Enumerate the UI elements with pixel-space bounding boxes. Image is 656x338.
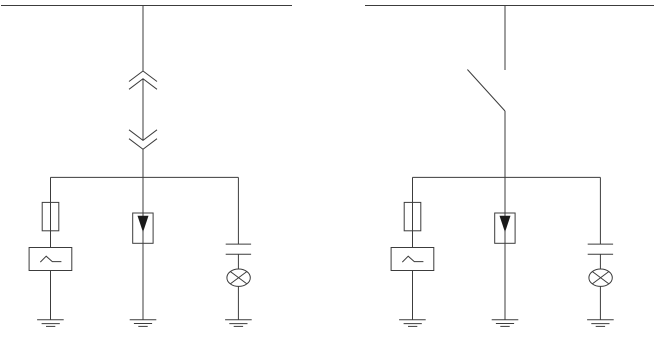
drawout contact chevron (lower pair, left bay breaker truck) (129, 130, 157, 150)
ground (right bay, right branch) (587, 320, 614, 327)
capacitor (left bay coupling capacitor) (226, 244, 251, 254)
wire: middle branch through surge arrester (right bay) (504, 177, 506, 319)
drawout contact chevron (upper pair, left bay breaker truck) (129, 71, 157, 89)
surge recorder box (right bay) (391, 248, 434, 271)
surge arrester (right bay) (495, 213, 515, 243)
fuse F (left bay) (42, 202, 59, 230)
ground (right bay, middle branch) (492, 320, 519, 327)
lamp / voltage indicator (right bay) (589, 269, 612, 286)
wire: left branch to ground (right bay) (412, 271, 414, 320)
node bus (left bay, lower horizontal tie) (51, 176, 239, 178)
wire: middle branch through surge arrester (left bay) (142, 177, 144, 319)
surge recorder box (left bay) (29, 248, 72, 271)
wire: right branch to capacitor (right bay) (599, 177, 601, 244)
busbar (right bay, top) (365, 5, 654, 7)
impulse waveform glyph (left bay box) (40, 256, 61, 262)
wire: lamp to ground (left bay) (237, 286, 239, 319)
disconnector switch blade (right bay, open) (467, 70, 505, 112)
busbar (left bay, top) (1, 5, 292, 7)
wire from busbar to disconnector fixed contact (right bay) (504, 6, 506, 71)
ground (left bay, middle branch) (130, 320, 157, 327)
capacitor (right bay coupling capacitor) (588, 244, 613, 254)
fuse F (right bay) (404, 202, 421, 230)
wire from disconnector to lower node bus (right bay) (504, 111, 506, 177)
wire: lamp to ground (right bay) (599, 286, 601, 319)
wire: capacitor to lamp (left bay) (237, 254, 239, 269)
wire: right branch to capacitor (left bay) (237, 177, 239, 244)
node bus (right bay, lower horizontal tie) (413, 176, 601, 178)
wire: capacitor to lamp (right bay) (599, 254, 601, 269)
wire: left branch drop through fuse (left bay) (50, 177, 52, 247)
wire from busbar to drawout contact (left bay) (142, 6, 144, 72)
wire between drawout contacts (left bay) (142, 79, 144, 141)
surge arrester arrow (right bay) (500, 216, 511, 233)
lamp / voltage indicator (left bay) (227, 269, 250, 286)
wire from drawout contact to lower node bus (left bay) (142, 149, 144, 177)
wire: left branch drop through fuse (right bay) (412, 177, 414, 247)
ground (left bay, left branch) (37, 320, 64, 327)
wire: left branch to ground (left bay) (50, 271, 52, 320)
ground (right bay, left branch) (399, 320, 426, 327)
surge arrester (left bay) (133, 213, 153, 243)
impulse waveform glyph (right bay box) (402, 256, 423, 262)
surge arrester arrow (left bay) (138, 216, 149, 233)
ground (left bay, right branch) (225, 320, 252, 327)
